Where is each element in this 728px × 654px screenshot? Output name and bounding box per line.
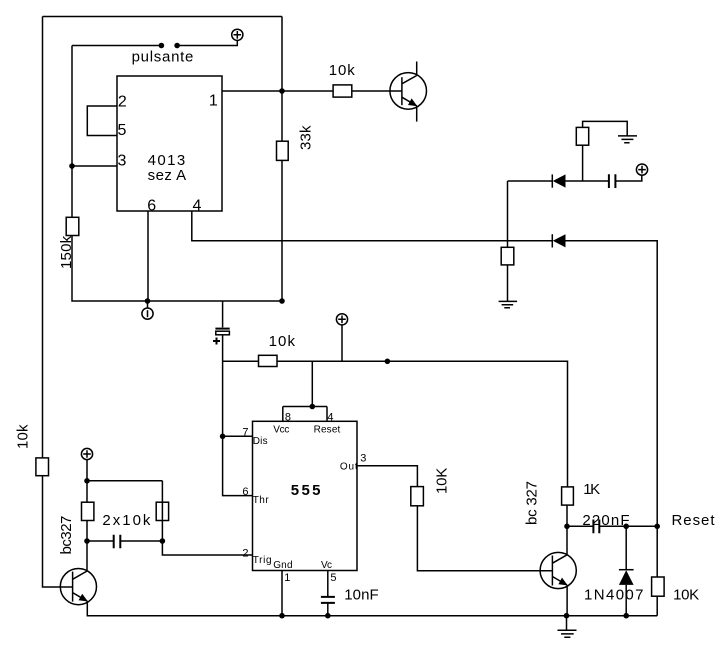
node pin5 bottom: [325, 613, 331, 619]
resistor R4 10k left rail: [15, 424, 49, 476]
svg-text:555: 555: [291, 482, 321, 499]
capacitor C1 electrolytic: [213, 301, 230, 345]
wire reset line: [567, 525, 657, 527]
wire C2 down: [327, 603, 329, 616]
svg-text:10k: 10k: [269, 333, 296, 350]
wire Q1 collector: [416, 62, 418, 76]
resistor R10 10K: [411, 468, 451, 506]
IC U2 555: [253, 421, 358, 570]
node diode bottom junction: [623, 613, 629, 619]
svg-text:8: 8: [285, 411, 291, 423]
svg-text:2: 2: [242, 548, 248, 560]
node pin3 junction: [69, 163, 75, 169]
resistor R2 33k: [277, 125, 315, 160]
wire C4 to plus: [615, 175, 641, 181]
power terminal + (bc327 left): [81, 448, 92, 459]
node Q3 bottom junction: [564, 613, 570, 619]
wire pulsante left: [72, 45, 161, 47]
wire plus to Q2 top: [86, 459, 88, 571]
svg-text:10K: 10K: [673, 586, 699, 603]
node Dis junction: [220, 434, 226, 440]
node pin1 junction: [279, 88, 285, 94]
wire Vcc run 10k: [223, 361, 568, 487]
wire Q3 emitter down: [566, 585, 568, 616]
wire pin3: [72, 165, 117, 167]
wire Dis pin7: [223, 435, 253, 437]
wire inner left rail (150k branch): [72, 46, 282, 302]
node 1K bottom junction: [564, 524, 570, 530]
wire R5 bottom: [582, 145, 584, 181]
node pin1 bottom: [279, 613, 285, 619]
svg-text:Dis: Dis: [253, 436, 268, 447]
power terminal + (pulsante): [232, 29, 243, 40]
power terminal + (555 vcc): [336, 314, 347, 362]
node cap right: [160, 538, 166, 544]
node pin6 bottom junction: [145, 298, 151, 304]
svg-text:3: 3: [118, 152, 127, 169]
svg-text:10nF: 10nF: [344, 586, 379, 603]
wire cap left: [87, 540, 114, 542]
wire to right resistor: [87, 480, 162, 482]
transistor Q3 bc 327: [524, 481, 577, 589]
wire right branch to Trig: [162, 481, 252, 555]
diode D2: [552, 234, 565, 247]
ground GND1: [618, 136, 637, 143]
wire R6 to ground: [507, 265, 509, 301]
wire pin4 run: [192, 211, 553, 241]
capacitor C5 220nF: [582, 512, 629, 533]
svg-text:Gnd: Gnd: [273, 560, 292, 571]
wire pin5 down: [327, 571, 329, 597]
svg-text:10K: 10K: [433, 468, 450, 494]
transistor Q1: [390, 73, 427, 110]
svg-text:10k: 10k: [329, 62, 356, 79]
diode D1: [552, 174, 565, 187]
svg-text:2: 2: [118, 93, 127, 110]
wire D1 to C4: [566, 180, 609, 182]
resistor R6 (mid right): [501, 247, 514, 265]
svg-text:Thr: Thr: [253, 495, 270, 506]
wire 1K bottom: [566, 505, 568, 526]
wire pin1 down: [281, 571, 283, 616]
capacitor C2 10nF: [321, 586, 379, 603]
svg-text:Out: Out: [340, 462, 358, 473]
svg-text:6: 6: [242, 486, 248, 498]
node cap left: [84, 538, 90, 544]
wire Out run: [357, 466, 552, 571]
node 33k bottom junction: [279, 298, 285, 304]
resistor R5 (top right): [576, 127, 588, 145]
resistor R11 1K: [562, 481, 601, 505]
svg-text:bc327: bc327: [58, 516, 75, 555]
resistor R7 10k: [259, 333, 296, 367]
svg-text:pulsante: pulsante: [132, 49, 194, 66]
resistor R8 2x10k left: [82, 502, 94, 520]
svg-text:Reset: Reset: [672, 512, 716, 529]
svg-text:Vcc: Vcc: [273, 424, 289, 435]
svg-text:1: 1: [284, 572, 290, 584]
terminal circle (minus): [142, 301, 153, 319]
svg-text:Trig: Trig: [253, 555, 272, 566]
wire pin6: [147, 211, 149, 301]
svg-text:1N4007: 1N4007: [584, 586, 644, 603]
svg-text:1: 1: [209, 93, 218, 110]
ground GND3: [558, 616, 577, 638]
node diode top junction: [623, 524, 629, 530]
svg-text:4: 4: [327, 411, 333, 423]
resistor R12 10K: [652, 526, 700, 615]
svg-text:4: 4: [193, 198, 202, 215]
node vcc junction: [385, 359, 391, 365]
svg-text:1K: 1K: [583, 481, 600, 498]
node pin8-4 junction: [310, 404, 316, 410]
wire pin1 to transistor: [222, 90, 402, 92]
svg-text:Vc: Vc: [321, 560, 332, 571]
svg-text:5: 5: [118, 122, 127, 139]
capacitor C3: [114, 535, 121, 548]
svg-text:33k: 33k: [298, 125, 315, 150]
resistor R3 150k: [58, 217, 79, 269]
wire pin2-pin5 loop: [87, 106, 117, 136]
svg-text:sez A: sez A: [148, 167, 187, 184]
resistor R9 2x10k right: [102, 502, 168, 529]
wire pins 8-4: [283, 361, 327, 421]
svg-text:150k: 150k: [58, 235, 75, 269]
node junction top: [84, 478, 90, 484]
wire Q2 emitter to bottom rail: [87, 601, 657, 616]
wire cap right: [120, 540, 162, 542]
wire Q3 collector up: [566, 526, 568, 555]
capacitor C4: [609, 174, 616, 188]
svg-text:3: 3: [360, 452, 366, 464]
svg-text:10k: 10k: [15, 424, 32, 449]
svg-text:2x10k: 2x10k: [102, 512, 150, 529]
wire left drop to pin4 line: [507, 181, 509, 247]
svg-text:7: 7: [242, 426, 248, 438]
wire right inner rail (33k branch): [281, 17, 283, 302]
IC U1 4013: [117, 76, 222, 211]
svg-text:Reset: Reset: [314, 424, 341, 435]
transistor Q2 bc327: [58, 516, 97, 605]
ground GND2: [499, 301, 517, 307]
power terminal + (top right): [636, 164, 647, 175]
node right rail junction: [654, 524, 660, 530]
wire D2 right to right rail: [566, 241, 658, 527]
node switch contact left: [159, 43, 165, 49]
resistor R1 10k: [329, 62, 356, 97]
svg-text:5: 5: [330, 572, 336, 584]
wire C1 down to Dis/Thr: [223, 335, 253, 496]
wire pulsante right: [177, 40, 237, 45]
wire R5 top to ground: [583, 121, 628, 135]
wire left rail: [43, 17, 73, 588]
svg-text:220nF: 220nF: [582, 512, 629, 529]
svg-text:bc 327: bc 327: [524, 481, 541, 525]
diode D3 1N4007: [584, 526, 644, 615]
wire Q1 emitter: [416, 106, 418, 122]
node switch contact right: [174, 43, 180, 49]
wire top frame: [43, 16, 283, 18]
wire D1 left: [508, 180, 553, 182]
